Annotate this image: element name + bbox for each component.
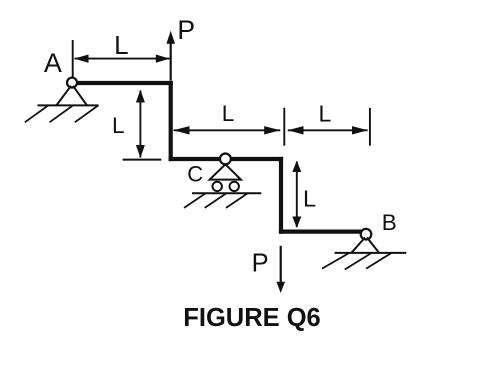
svg-text:B: B [382, 210, 397, 235]
pin support B hinge circle [361, 229, 372, 240]
svg-text:L: L [303, 186, 316, 212]
pin support A ground line [38, 104, 99, 106]
roller support C hatch 2 [205, 193, 227, 208]
dimension 1 extension tick above A [72, 40, 74, 77]
svg-text:L: L [112, 113, 125, 138]
dimension 2 line (left vertical L) [139, 91, 141, 158]
dimension 3 line (middle L) [174, 129, 281, 131]
roller support C ground line [192, 192, 261, 194]
beam segment corner1 down (first vertical) [169, 83, 173, 159]
dimension 1 right arrowhead [156, 55, 170, 63]
dimension 5 down arrowhead [292, 217, 301, 229]
svg-text:A: A [44, 48, 62, 78]
dimension 2 down arrowhead [136, 145, 145, 158]
dimension 3 left arrowhead [173, 126, 189, 134]
force P at corner1 shaft (upward) [170, 43, 172, 81]
force P at corner2 arrowhead [276, 282, 285, 293]
roller support C hatch 1 [184, 193, 206, 208]
pin support A hatch 1 [25, 105, 49, 122]
pin support A triangle legs [56, 86, 87, 106]
pin support B hatch 3 [366, 253, 391, 269]
dimension 4 right arrowhead [352, 126, 368, 134]
beam segment to B (bottom horizontal) [281, 230, 361, 234]
beam segment through C (middle horizontal) [171, 157, 281, 161]
svg-text:L: L [319, 101, 332, 127]
svg-text:L: L [222, 101, 235, 126]
pin support B hatch 1 [322, 253, 349, 269]
dimension 4 right tick [369, 108, 371, 146]
roller support C triangle [210, 164, 241, 179]
beam segment A to corner1 (top horizontal) [77, 81, 171, 85]
force P at corner2 shaft (downward) [280, 246, 282, 283]
dimension 2 up arrowhead [136, 90, 145, 103]
svg-text:P: P [177, 15, 195, 45]
pin support A hinge circle [67, 78, 77, 88]
pin support A hatch 3 [75, 105, 99, 122]
pin support B hatch 2 [345, 253, 372, 269]
roller support C right roller [230, 182, 239, 191]
force P at corner1 arrowhead [166, 31, 175, 44]
dimension 1 left arrowhead [74, 55, 89, 63]
svg-text:FIGURE Q6: FIGURE Q6 [183, 304, 320, 332]
svg-text:C: C [187, 162, 203, 187]
dimension 3 right tick [283, 108, 285, 146]
svg-text:L: L [114, 30, 128, 60]
dimension 4 left arrowhead [288, 126, 304, 134]
dimension 5 up arrowhead [292, 161, 301, 172]
dimension 1 line (top L) [75, 58, 170, 60]
pin support B ground line [335, 252, 407, 254]
pin support B triangle legs [351, 238, 379, 253]
roller support C hinge circle [220, 154, 231, 165]
roller support C hatch 3 [226, 193, 248, 208]
dimension 2 bottom tick [123, 159, 162, 161]
roller support C left roller [213, 182, 222, 191]
beam segment corner2 down (second vertical) [279, 159, 283, 232]
dimension 4 line (right L) [288, 129, 368, 131]
dimension 3 right arrowhead [264, 126, 280, 134]
svg-text:P: P [252, 250, 269, 278]
pin support A hatch 2 [50, 105, 74, 122]
dimension 5 line (right vertical L) [296, 162, 298, 228]
